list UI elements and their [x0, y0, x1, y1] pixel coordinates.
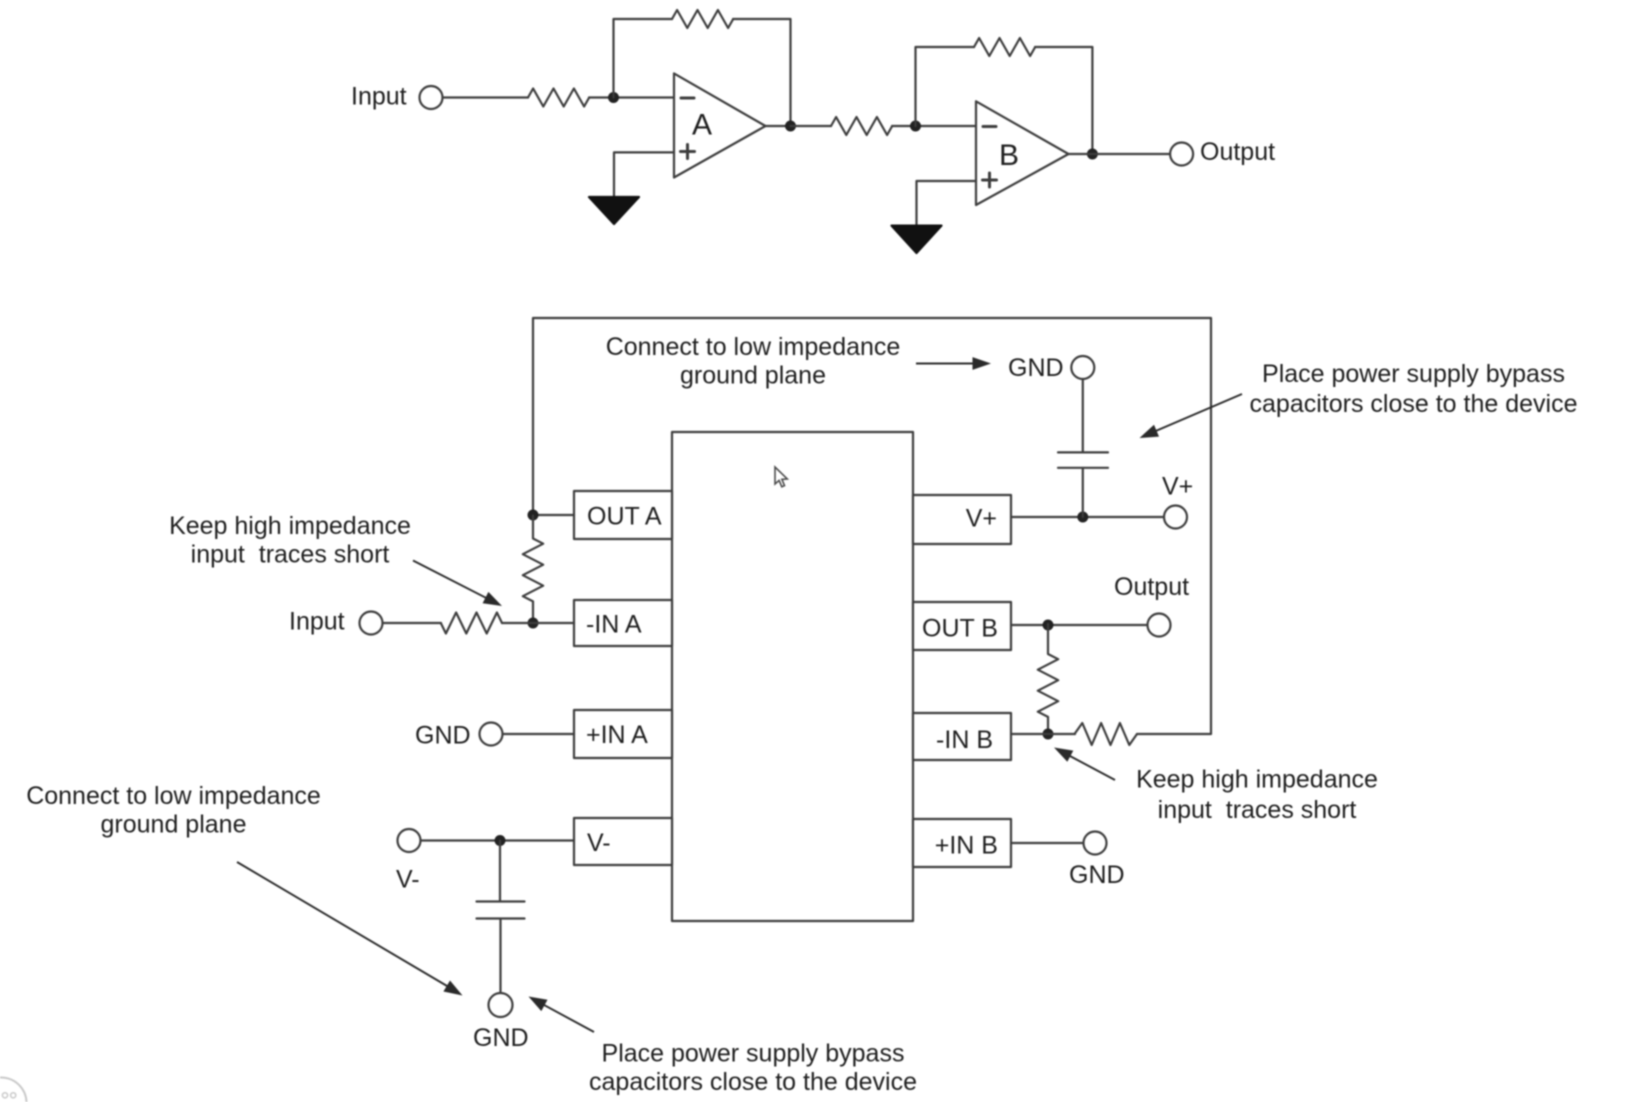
- node V- terminal: [398, 829, 421, 852]
- ground (below op-amp B): [892, 226, 942, 253]
- arrow bypass caps (top right): [1155, 394, 1242, 431]
- svg-text:Connect to low impedance: Connect to low impedance: [26, 782, 321, 810]
- svg-text:B: B: [999, 139, 1019, 172]
- svg-text:OUT A: OUT A: [587, 503, 662, 531]
- node B output junction: [1087, 149, 1098, 160]
- wire B output to Output terminal: [1069, 153, 1170, 155]
- svg-text:Output: Output: [1200, 138, 1275, 166]
- svg-text:V-: V-: [396, 866, 420, 894]
- wire capacitor to V+ junction: [1082, 468, 1084, 517]
- svg-text:OUT B: OUT B: [922, 615, 998, 643]
- mouse cursor: [775, 467, 787, 487]
- svg-text:GND: GND: [1069, 861, 1125, 889]
- wire + input of B to ground: [917, 181, 977, 226]
- arrow to GND (top): [916, 363, 974, 365]
- resistor R6 (input series, horizontal): [441, 613, 502, 634]
- op-amp U1B triangle: [976, 101, 1069, 205]
- wire OUT B to Output terminal: [1011, 624, 1147, 626]
- wire feedback rail left/top of A: [614, 19, 673, 98]
- pin box -IN A: [574, 600, 672, 646]
- svg-text:Connect to low impedance: Connect to low impedance: [606, 333, 901, 361]
- node Input (terminal circle): [420, 86, 443, 109]
- node A output junction: [785, 121, 796, 132]
- node V- junction: [495, 835, 506, 846]
- resistor R2 (feedback of A): [672, 10, 733, 28]
- wire V- junction down to capacitor: [499, 841, 501, 902]
- resistor R7 (feedback B, vertical): [1038, 624, 1058, 733]
- svg-text:Input: Input: [351, 83, 407, 111]
- wire A output apex to junction: [766, 125, 791, 127]
- resistor R5 (feedback A, vertical): [523, 516, 543, 624]
- wire +IN A to GND terminal: [503, 733, 574, 735]
- wire +IN B to GND terminal: [1011, 842, 1083, 844]
- node junction at A inverting input: [608, 92, 619, 103]
- svg-text:A: A: [692, 109, 712, 142]
- arrow ground plane (bottom left, long): [237, 862, 448, 987]
- IC body U1: [672, 432, 913, 921]
- svg-text:V-: V-: [587, 829, 611, 857]
- wire V+ line: [1011, 516, 1164, 518]
- node OUT A junction: [528, 510, 539, 521]
- node V+ terminal: [1164, 506, 1187, 529]
- arrow keep traces short (right): [1069, 756, 1115, 781]
- svg-text:GND: GND: [415, 722, 471, 750]
- svg-text:GND: GND: [473, 1024, 529, 1052]
- wire feedback rail right of B: [1035, 47, 1092, 154]
- pin plus of B: [983, 173, 997, 187]
- watermark circle bottom-left: [0, 1078, 27, 1102]
- node Output terminal (bottom): [1148, 614, 1171, 637]
- svg-text:ground plane: ground plane: [680, 362, 826, 390]
- pin box V+: [913, 495, 1011, 544]
- pin box OUT A: [574, 491, 672, 539]
- svg-text:Keep high impedance: Keep high impedance: [1136, 766, 1378, 794]
- ground (below op-amp A): [589, 197, 639, 224]
- pin box +IN A: [574, 710, 672, 758]
- svg-text:input traces short: input traces short: [191, 541, 390, 569]
- node junction at B inverting input: [910, 121, 921, 132]
- node GND terminal (+IN A): [480, 723, 503, 746]
- svg-text:V+: V+: [966, 505, 997, 533]
- pin box V-: [574, 818, 672, 865]
- node GND terminal (top): [1071, 356, 1094, 379]
- pin box OUT B: [913, 602, 1011, 650]
- resistor R8 (input series B, horizontal): [1075, 723, 1138, 745]
- svg-text:Input: Input: [289, 608, 345, 636]
- capacitor C2 (V- bypass): [477, 902, 525, 919]
- svg-text:capacitors close to the device: capacitors close to the device: [1250, 390, 1578, 418]
- node V+ junction: [1077, 512, 1088, 523]
- wire A output to R3: [791, 125, 832, 127]
- wire feedback rail left/top of B: [916, 47, 975, 126]
- node OUT B junction: [1043, 620, 1054, 631]
- node -IN B junction: [1043, 729, 1054, 740]
- svg-text:input traces short: input traces short: [1158, 796, 1357, 824]
- wire OUT A to junction: [533, 514, 574, 516]
- wire Input to R1: [443, 96, 528, 98]
- svg-text:V+: V+: [1162, 473, 1193, 501]
- pin minus of B: [983, 125, 996, 128]
- node Input terminal (bottom): [360, 612, 383, 635]
- wire R6 to Input terminal: [383, 622, 441, 624]
- resistor R1 (input series): [528, 89, 589, 107]
- svg-text:Keep high impedance: Keep high impedance: [169, 512, 411, 540]
- wire outer loop OUT A to -IN B: [533, 318, 1211, 734]
- node GND terminal (+IN B): [1084, 832, 1107, 855]
- node GND terminal (bottom): [489, 993, 513, 1017]
- op-amp U1A triangle: [674, 73, 766, 177]
- svg-text:Place power supply bypass: Place power supply bypass: [602, 1040, 905, 1068]
- node Output (terminal circle): [1170, 143, 1193, 166]
- wire R1 to inverting input of A: [589, 96, 674, 98]
- pin plus of A: [681, 145, 695, 159]
- svg-text:-IN A: -IN A: [586, 611, 642, 639]
- arrow bypass caps (bottom): [544, 1005, 595, 1032]
- wire capacitor to GND terminal (top): [1082, 380, 1084, 453]
- arrow keep traces short (left): [413, 561, 487, 599]
- pin box +IN B: [913, 819, 1011, 867]
- resistor R3 (interstage): [831, 117, 892, 135]
- svg-text:Output: Output: [1114, 573, 1189, 601]
- pin minus of A: [681, 97, 694, 100]
- svg-text:+IN A: +IN A: [586, 721, 648, 749]
- svg-text:ground plane: ground plane: [101, 811, 247, 839]
- svg-text:capacitors close to the device: capacitors close to the device: [589, 1068, 917, 1096]
- wire feedback rail right of A: [733, 19, 791, 126]
- svg-text:GND: GND: [1008, 354, 1064, 382]
- wire + input of A to ground: [614, 152, 674, 197]
- svg-text:-IN B: -IN B: [936, 726, 993, 754]
- resistor R4 (feedback of B): [974, 38, 1035, 56]
- node -IN A junction: [528, 618, 539, 629]
- svg-text:Place power supply bypass: Place power supply bypass: [1262, 360, 1565, 388]
- svg-text:+IN B: +IN B: [935, 832, 998, 860]
- wire R3 to inverting input of B: [892, 125, 976, 127]
- wire -IN B to junction: [1011, 733, 1075, 735]
- pin box -IN B: [913, 713, 1011, 760]
- wire V- line: [421, 839, 574, 841]
- wire -IN A to junction and resistor: [502, 622, 574, 624]
- wire capacitor to GND terminal: [499, 919, 501, 993]
- capacitor C1 (V+ bypass): [1058, 452, 1108, 467]
